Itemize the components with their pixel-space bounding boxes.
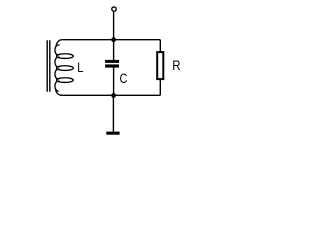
wire top rail to resistor	[159, 40, 161, 52]
iron core lines	[47, 40, 50, 92]
inductor L1 loop 2	[55, 57, 60, 67]
inductor L1 coil exit	[56, 89, 63, 96]
inductor L1 loop 4	[55, 81, 60, 91]
wire top rail	[62, 39, 160, 41]
wire terminal to top node	[113, 12, 115, 40]
inductor L1 loop 1	[55, 45, 60, 55]
inductor L1 coil entry	[56, 40, 62, 47]
wire capacitor to bottom rail	[113, 68, 115, 96]
inductor L1 flat loop 1	[56, 54, 73, 59]
terminal (input node)	[112, 7, 116, 11]
wire node to capacitor	[113, 40, 115, 60]
ground	[106, 132, 119, 135]
capacitor C bottom plate	[105, 64, 119, 67]
wire bottom rail	[61, 94, 161, 96]
wire to ground	[112, 95, 114, 131]
inductor L1 loop 3	[55, 69, 60, 79]
inductor L1 flat loop 2	[56, 66, 73, 71]
resistor R box	[157, 52, 163, 79]
inductor L1 flat loop 3	[56, 78, 73, 83]
node A junction dot top	[111, 37, 116, 42]
svg-text:C: C	[120, 71, 128, 87]
wire resistor to bottom rail	[159, 79, 161, 95]
capacitor C top plate	[105, 60, 119, 63]
svg-text:R: R	[172, 57, 180, 73]
svg-text:L: L	[77, 60, 83, 76]
node B junction dot bottom	[111, 93, 116, 98]
